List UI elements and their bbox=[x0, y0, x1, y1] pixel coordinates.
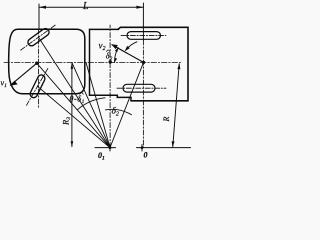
point O1 bbox=[109, 146, 112, 149]
radius line O1 to R3 axis point bbox=[72, 63, 110, 148]
svg-text:R: R bbox=[162, 117, 171, 123]
radius line O1 to front top wheel bbox=[39, 37, 111, 147]
dimension L right arrowhead bbox=[136, 6, 143, 9]
rear top wheel centerline bbox=[121, 34, 166, 36]
angle arc theta-delta1 bbox=[77, 98, 105, 110]
svg-text:0: 0 bbox=[144, 151, 148, 160]
rear bottom wheel centerline bbox=[117, 87, 166, 89]
point O bbox=[141, 146, 144, 149]
base line through O1 bbox=[95, 147, 116, 149]
front bottom wheel direction line bbox=[27, 67, 49, 105]
dimension L left arrowhead bbox=[39, 6, 46, 9]
rear axle centre node C bbox=[142, 61, 145, 64]
dimension L line bbox=[39, 6, 143, 8]
R dimension line bbox=[173, 64, 179, 147]
angle arc delta2 at C bbox=[114, 48, 118, 63]
front bottom wheel (steered slot) bbox=[29, 74, 46, 99]
front top wheel direction line bbox=[21, 24, 57, 50]
curved angle arrow below rear top wheel bbox=[126, 42, 137, 50]
rear body outline bbox=[118, 27, 188, 101]
rear bottom wheel slot bbox=[123, 84, 155, 92]
radius line O1 to front bottom wheel bbox=[38, 86, 111, 147]
radius line O1 to H (vertical dash-dot) bbox=[109, 25, 111, 148]
velocity v1 vector bbox=[11, 63, 37, 85]
velocity v2 vector bbox=[112, 45, 144, 63]
angle arc delta2 at O1 bbox=[105, 109, 131, 114]
hitch node H bbox=[109, 60, 112, 63]
front body outline bbox=[9, 29, 85, 93]
front top wheel (steered slot) bbox=[27, 27, 51, 47]
radius line O1 to C bbox=[110, 62, 144, 147]
base line through O bbox=[137, 147, 191, 149]
vehicle longitudinal axis (dash-dot) bbox=[4, 62, 182, 64]
rear axle vertical line / L extension bbox=[142, 3, 144, 40]
rear top wheel slot bbox=[127, 32, 161, 40]
front axle centre node A bbox=[35, 62, 38, 65]
R3 dimension line bbox=[71, 64, 73, 147]
radius line O1 to front hitch point bbox=[86, 63, 110, 148]
svg-text:L: L bbox=[82, 1, 89, 12]
front axle vertical line / L extension bbox=[38, 4, 40, 29]
radius line O1 to A bbox=[37, 63, 110, 147]
trailer drawbar / neck outline bbox=[90, 29, 132, 100]
